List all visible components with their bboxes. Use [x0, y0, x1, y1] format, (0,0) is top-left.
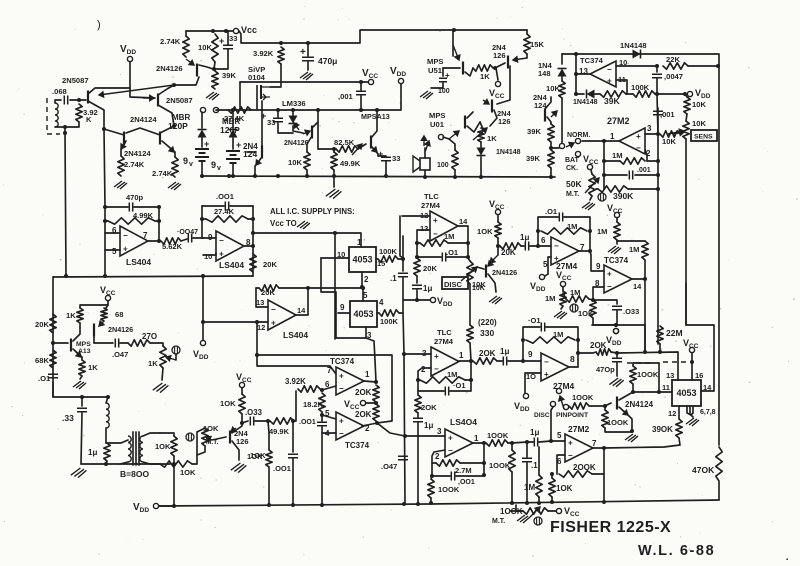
svg-text:4: 4	[325, 429, 330, 438]
wire bottom VDD rail	[159, 500, 719, 506]
junction	[574, 72, 578, 76]
svg-text:MPS: MPS	[76, 341, 91, 348]
wire output	[458, 226, 468, 258]
wire	[516, 505, 523, 511]
resistor 100K	[379, 310, 399, 316]
arrow into U51	[453, 45, 460, 60]
wire pin5	[548, 257, 551, 274]
junction	[172, 462, 176, 466]
op-amp TC374c	[604, 265, 632, 293]
label TC374	[604, 256, 629, 265]
label pin 1	[357, 238, 362, 247]
wire	[417, 242, 420, 244]
label Vcc mid	[362, 68, 378, 80]
label 1K	[148, 359, 158, 368]
label 50K	[566, 179, 582, 189]
label .047	[112, 350, 128, 359]
transistor 2N4126	[93, 324, 95, 337]
svg-text:1M: 1M	[444, 232, 454, 241]
label 49.9K	[269, 427, 290, 436]
label 20K	[261, 288, 275, 297]
resistor 3.92K	[298, 386, 320, 392]
wire	[526, 442, 528, 457]
svg-text:10K: 10K	[198, 43, 212, 52]
label Vcc	[344, 399, 360, 411]
svg-text:10K: 10K	[692, 100, 706, 109]
label VDD	[514, 401, 530, 413]
resistor 100	[452, 150, 458, 170]
label 1K	[66, 311, 76, 320]
svg-text:+: +	[448, 433, 453, 442]
wire	[447, 256, 468, 258]
junction	[591, 298, 595, 302]
wire	[688, 65, 719, 67]
label 1u	[424, 421, 433, 430]
junction	[416, 502, 420, 506]
resistor 10K	[684, 97, 690, 114]
svg-text:−: −	[123, 231, 128, 240]
IC 4053	[349, 247, 376, 272]
resistor 10K	[212, 34, 218, 62]
label 470K	[692, 465, 715, 475]
wire	[562, 287, 564, 291]
wire	[564, 217, 590, 231]
label 2N4	[243, 142, 258, 151]
label 120P	[220, 125, 240, 135]
wire op1 out	[364, 381, 376, 382]
svg-text:27M4: 27M4	[434, 337, 454, 346]
wire	[527, 441, 533, 443]
label 27M4	[556, 261, 578, 271]
svg-text:1K: 1K	[88, 363, 98, 372]
switch contact	[550, 401, 555, 406]
label pins 678	[700, 409, 716, 416]
svg-text:,OO1: ,OO1	[458, 479, 475, 486]
arrow Q5 emitter	[168, 146, 174, 152]
terminal VDD	[153, 503, 158, 508]
resistor 2.7M	[436, 460, 460, 466]
terminal	[613, 328, 618, 333]
junction	[631, 390, 635, 394]
svg-text:27M2: 27M2	[607, 116, 630, 126]
resistor 270	[128, 340, 150, 346]
label .0047	[664, 72, 683, 81]
label pin 13	[666, 371, 674, 380]
capacitor 470p	[612, 358, 622, 361]
label 10K	[155, 442, 171, 451]
wire pin11	[633, 391, 672, 393]
arrow LM336 adj	[294, 123, 299, 130]
label 3.92K	[253, 49, 274, 58]
junction	[375, 421, 379, 425]
svg-text:LM336: LM336	[282, 99, 306, 108]
svg-text:Vcc TO: Vcc TO	[270, 219, 297, 228]
label 10K	[203, 424, 219, 433]
wire	[547, 117, 551, 124]
terminal VDD	[127, 56, 132, 61]
label pin 2	[421, 365, 426, 374]
wire long vertical	[404, 354, 405, 503]
label pin 13	[420, 224, 428, 233]
op-amp TLC27M4a	[430, 211, 458, 241]
label 1u	[520, 233, 529, 242]
svg-text:68K: 68K	[35, 356, 49, 365]
wire	[105, 232, 120, 234]
wire output	[604, 140, 619, 142]
wire output	[459, 360, 471, 362]
wire	[603, 448, 605, 502]
wire pin10	[616, 65, 657, 67]
wire	[307, 43, 309, 56]
svg-text:100K: 100K	[631, 83, 650, 92]
junction	[521, 359, 525, 363]
svg-text:PINPOINT: PINPOINT	[556, 412, 589, 419]
wire pin5	[362, 287, 364, 301]
label pin 13	[579, 67, 588, 76]
op-amp LS404c	[268, 300, 296, 330]
label MBR	[172, 113, 190, 122]
wire	[377, 423, 405, 436]
label 1K	[480, 72, 490, 81]
resistor 18.2K	[319, 393, 325, 412]
wire	[181, 239, 187, 241]
wire pin12	[402, 215, 430, 217]
resistor	[104, 443, 110, 461]
capacitor .047	[115, 339, 118, 348]
label pin 11	[662, 383, 670, 392]
svg-text:+: +	[300, 47, 306, 58]
junction	[549, 175, 553, 179]
svg-text:49.9K: 49.9K	[269, 427, 290, 436]
resistor 39K	[600, 91, 626, 97]
label 2N4126	[108, 325, 133, 334]
svg-text:−: −	[434, 365, 439, 374]
wire pin3	[405, 435, 445, 437]
label 126	[493, 51, 506, 60]
wire pin3	[336, 327, 366, 338]
label DISC	[534, 412, 550, 419]
junction	[103, 274, 107, 278]
wire to NORM	[582, 140, 604, 142]
junction	[602, 139, 606, 143]
wire	[512, 442, 527, 443]
resistor 10K pot	[683, 121, 689, 139]
label pin 7	[327, 366, 332, 375]
svg-text:2N4124: 2N4124	[625, 400, 654, 409]
svg-text:7: 7	[592, 439, 597, 448]
wire left column	[52, 277, 54, 397]
wire	[644, 325, 646, 352]
wire	[318, 148, 336, 150]
wire output	[569, 366, 578, 368]
resistor 1M	[536, 475, 542, 497]
label 1M	[524, 483, 535, 492]
resistor 10K pot	[202, 428, 208, 446]
junction coil bottom	[63, 125, 67, 129]
switch contact	[556, 388, 561, 393]
label pin 14	[633, 282, 642, 291]
junction	[614, 323, 618, 327]
svg-text:12: 12	[668, 409, 676, 418]
ground	[206, 92, 219, 100]
wire	[192, 432, 197, 464]
resistor 390K	[676, 419, 682, 438]
wire	[53, 382, 108, 397]
wire main top rail	[239, 30, 527, 43]
svg-text:100K: 100K	[379, 247, 398, 256]
svg-text:MPS: MPS	[429, 111, 445, 120]
label 3.92K	[285, 377, 306, 386]
svg-text:.O1: .O1	[446, 248, 458, 257]
wire	[449, 139, 455, 150]
svg-text:2: 2	[364, 275, 369, 284]
junction	[255, 320, 259, 324]
resistor 4.99K	[108, 218, 155, 224]
junction	[320, 503, 324, 507]
label 82.5K	[334, 138, 355, 147]
svg-text:1μ: 1μ	[500, 347, 509, 356]
label 124	[534, 101, 547, 110]
wire	[497, 238, 499, 246]
junction	[266, 419, 270, 423]
arrow emitter	[75, 351, 81, 357]
label 120P	[168, 121, 188, 131]
wire base	[247, 151, 256, 153]
label 27M2	[568, 424, 590, 434]
resistor 1M	[420, 377, 465, 383]
resistor 390K	[598, 186, 628, 192]
label K	[86, 115, 92, 124]
wire	[294, 391, 296, 421]
label Vcc top	[241, 25, 257, 35]
svg-text:(220): (220)	[478, 318, 497, 327]
wire	[280, 64, 282, 86]
label 100K	[489, 461, 511, 470]
junction	[402, 352, 406, 356]
wire	[333, 170, 335, 176]
junction	[102, 127, 106, 131]
ground	[686, 418, 699, 426]
wire	[510, 510, 523, 512]
ground symbol in note	[297, 221, 310, 229]
wire	[685, 283, 687, 325]
label 1M	[567, 222, 577, 231]
wire reference rail	[53, 276, 253, 277]
label 100K	[500, 507, 523, 516]
wire U51 base	[443, 67, 460, 69]
transistor MPS U51	[462, 62, 464, 75]
label 20K	[35, 320, 49, 329]
label Vcc	[683, 338, 699, 350]
junction	[279, 41, 283, 45]
wire	[241, 414, 243, 423]
wire mixer rail	[617, 352, 678, 380]
svg-text:2N4126: 2N4126	[156, 64, 183, 73]
label 2.74K	[160, 37, 181, 46]
wire	[551, 147, 559, 149]
junction	[361, 286, 365, 290]
wire	[106, 461, 107, 464]
wire	[561, 54, 563, 64]
svg-text:LS404: LS404	[283, 330, 308, 340]
svg-text:2N4124: 2N4124	[130, 115, 157, 124]
wire base	[358, 144, 366, 149]
wire	[659, 344, 661, 352]
label SiVP	[248, 65, 265, 74]
resistor 330	[467, 325, 473, 343]
svg-text:+: +	[219, 36, 224, 46]
wire	[322, 427, 336, 433]
wire	[292, 459, 294, 505]
capacitor .33	[77, 408, 87, 411]
arrow pot wiper	[206, 437, 212, 442]
arrow	[231, 427, 236, 432]
label MT	[492, 518, 505, 525]
transistor 2N4124	[616, 397, 618, 410]
trimmer mark	[534, 517, 542, 525]
junction	[493, 66, 497, 70]
capacitor .0047	[652, 74, 662, 77]
resistor 50K pot	[589, 174, 595, 196]
label 124	[243, 149, 257, 159]
junction	[172, 504, 176, 508]
wire	[551, 407, 553, 441]
junction	[469, 378, 473, 382]
svg-text:FISHER 1225-X: FISHER 1225-X	[550, 519, 671, 536]
svg-text:1OOK: 1OOK	[572, 393, 594, 402]
op-amp TC374a	[590, 61, 616, 87]
label pin 15	[377, 259, 385, 268]
wire left node vertical	[603, 141, 605, 189]
wire output	[148, 240, 159, 242]
wire	[404, 299, 430, 301]
svg-text:3.92K: 3.92K	[253, 49, 274, 58]
wire	[656, 66, 658, 72]
wire	[480, 122, 483, 129]
svg-text:100: 100	[438, 88, 450, 95]
wire	[256, 287, 259, 289]
wire	[424, 148, 426, 158]
junction	[106, 395, 110, 399]
arrow into Q3 base	[186, 59, 194, 65]
junction	[655, 64, 659, 68]
svg-text:148: 148	[538, 69, 551, 78]
svg-text:,001: ,001	[338, 92, 354, 101]
svg-text:1OOK: 1OOK	[487, 431, 509, 440]
wire	[508, 360, 523, 362]
arrow to sens pot	[674, 130, 684, 135]
svg-text:33: 33	[229, 34, 237, 43]
wire Vcc rail	[240, 81, 368, 83]
wire	[657, 94, 658, 134]
label pin 3	[367, 331, 372, 340]
junction	[536, 244, 540, 248]
terminal VDD	[613, 328, 618, 333]
wire	[452, 30, 454, 56]
wire vertical	[104, 207, 106, 276]
dashed wire	[663, 361, 688, 363]
wire	[508, 442, 512, 444]
junction	[657, 390, 661, 394]
wire U01 collector	[467, 112, 473, 118]
wire	[158, 207, 160, 241]
label pin 14	[459, 217, 468, 226]
label .001	[637, 167, 651, 174]
wire	[335, 292, 337, 338]
wire	[685, 94, 687, 97]
svg-text:2N4126: 2N4126	[108, 325, 133, 334]
wire Q3 emitter	[199, 65, 213, 69]
wire	[465, 379, 471, 381]
transistor Q3 2N4126	[196, 64, 198, 77]
svg-text:2: 2	[435, 452, 440, 461]
capacitor .001	[629, 171, 632, 180]
op-amp LS404d	[445, 429, 473, 457]
resistor 68	[101, 308, 107, 321]
junction	[521, 338, 525, 342]
terminal VDD	[200, 340, 205, 345]
label pin 16	[695, 371, 703, 380]
wire	[538, 217, 558, 246]
svg-text:.33: .33	[62, 413, 74, 423]
dashed wire	[627, 362, 654, 364]
label 1K	[487, 134, 497, 143]
transformer core	[132, 432, 134, 465]
resistor 10K disc pot	[467, 261, 473, 284]
svg-text:+: +	[271, 318, 276, 327]
svg-text:1: 1	[459, 351, 464, 360]
svg-text:2N5087: 2N5087	[166, 96, 193, 105]
wire	[442, 68, 444, 76]
label 1N4148	[496, 149, 521, 156]
junction	[276, 174, 280, 178]
wire	[490, 110, 497, 126]
wire	[417, 256, 441, 258]
label 39K	[222, 71, 236, 80]
svg-text:+: +	[219, 249, 224, 258]
arrow pot wiper	[352, 144, 362, 155]
switch contact BAT	[575, 151, 580, 156]
IC 4053	[350, 301, 377, 327]
label VDD	[193, 349, 209, 361]
junction	[643, 277, 647, 281]
speaker	[413, 156, 430, 172]
resistor 2.74K	[183, 36, 189, 57]
wire	[604, 160, 620, 162]
resistor 470K	[716, 447, 722, 481]
ground	[609, 378, 623, 387]
label v	[217, 165, 221, 172]
wire	[120, 342, 128, 344]
wire	[94, 342, 113, 344]
label 2N5087 Q1	[62, 76, 89, 85]
svg-text:1K: 1K	[66, 311, 76, 320]
svg-text:−: −	[607, 65, 612, 74]
svg-text:1M: 1M	[545, 294, 555, 303]
capacitor .068	[64, 96, 67, 105]
label pin 10	[619, 58, 627, 67]
resistor 100K	[630, 366, 636, 384]
label 20K	[355, 410, 372, 419]
wire	[81, 463, 170, 465]
op-amp LS404a	[120, 226, 148, 256]
svg-text:1μ: 1μ	[423, 284, 432, 293]
capacitor .01	[445, 387, 448, 396]
svg-text:TC374: TC374	[345, 441, 370, 450]
junction	[550, 500, 554, 504]
svg-text:+: +	[236, 140, 241, 150]
diode 1N4148	[587, 90, 595, 99]
